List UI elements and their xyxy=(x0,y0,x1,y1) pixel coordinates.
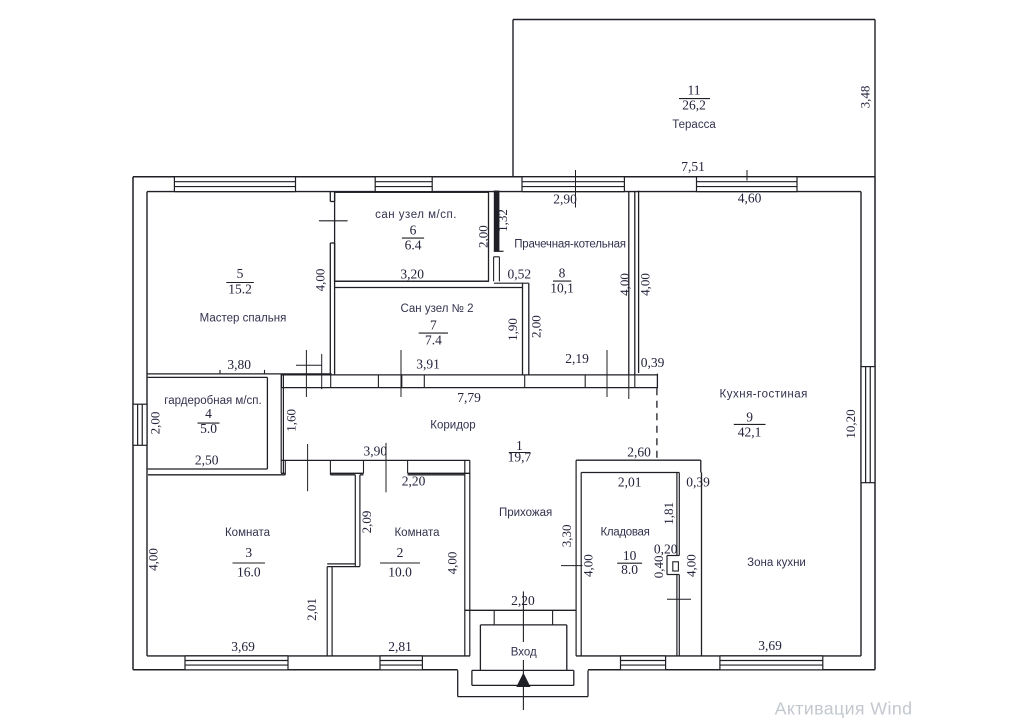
svg-text:10,1: 10,1 xyxy=(550,281,574,296)
wall master/san-uzel upper xyxy=(329,192,331,202)
svg-text:7,51: 7,51 xyxy=(681,159,705,174)
window room2 bottom xyxy=(380,656,422,670)
svg-text:3,91: 3,91 xyxy=(416,357,440,372)
svg-text:2,00: 2,00 xyxy=(528,315,543,338)
window laundry top xyxy=(522,177,624,192)
svg-text:3,90: 3,90 xyxy=(363,444,387,459)
svg-text:6.4: 6.4 xyxy=(405,238,422,253)
svg-text:2,50: 2,50 xyxy=(195,453,219,468)
svg-text:4,00: 4,00 xyxy=(313,269,328,292)
svg-text:2,01: 2,01 xyxy=(304,598,319,621)
wardrobe box xyxy=(266,377,268,469)
wall rooms 2/3 upper xyxy=(354,475,356,566)
corridor bottom wall top line xyxy=(281,459,470,461)
wall rooms 2/3 lower xyxy=(326,567,328,656)
svg-text:7: 7 xyxy=(430,318,437,333)
svg-text:Кухня-гостиная: Кухня-гостиная xyxy=(720,389,808,401)
corridor bottom wall lower segs xyxy=(281,472,285,474)
hall bottom wall xyxy=(465,609,576,611)
svg-text:4,00: 4,00 xyxy=(146,548,161,571)
svg-text:4,00: 4,00 xyxy=(580,554,595,577)
svg-text:0,52: 0,52 xyxy=(507,267,531,282)
svg-text:9: 9 xyxy=(746,410,753,425)
svg-text:4,00: 4,00 xyxy=(617,273,632,296)
entrance door jambs xyxy=(493,610,495,625)
svg-text:Зона кухни: Зона кухни xyxy=(747,557,806,569)
svg-text:0,39: 0,39 xyxy=(641,355,665,370)
window room3 bottom xyxy=(185,656,288,670)
svg-text:0,39: 0,39 xyxy=(686,474,710,489)
house bottom wall outer right xyxy=(588,669,875,671)
svg-text:4,00: 4,00 xyxy=(445,552,460,575)
svg-text:0,20: 0,20 xyxy=(654,542,678,557)
wardrobe top xyxy=(148,376,268,378)
door leaf master bedroom xyxy=(319,220,348,222)
svg-text:11: 11 xyxy=(688,83,701,98)
hall left wall xyxy=(464,460,466,656)
svg-text:2,00: 2,00 xyxy=(476,225,491,248)
svg-text:5: 5 xyxy=(237,266,244,281)
tick corner 3,80 xyxy=(321,354,323,389)
kladovaya door leaf xyxy=(673,562,679,571)
svg-text:сан узел м/сп.: сан узел м/сп. xyxy=(375,209,457,221)
corridor top wall jambs xyxy=(281,375,283,388)
window kladovaya bottom xyxy=(621,656,666,670)
ticks corridor xyxy=(305,350,307,397)
svg-text:Сан узел № 2: Сан узел № 2 xyxy=(400,303,473,315)
svg-text:7,79: 7,79 xyxy=(457,390,481,405)
svg-text:15.2: 15.2 xyxy=(228,282,252,297)
hall corner line xyxy=(656,374,658,389)
room 7 right wall xyxy=(522,283,524,375)
svg-text:Комната: Комната xyxy=(394,527,440,539)
tick below 7,51 right xyxy=(746,170,748,181)
svg-text:Комната: Комната xyxy=(225,527,271,539)
svg-text:3,20: 3,20 xyxy=(400,267,424,282)
svg-text:2,01: 2,01 xyxy=(618,474,642,489)
svg-text:3,69: 3,69 xyxy=(758,638,782,653)
kladovaya left wall xyxy=(575,460,577,656)
ticks corridor bottom xyxy=(307,444,309,491)
svg-text:3,80: 3,80 xyxy=(227,357,251,372)
svg-text:Кладовая: Кладовая xyxy=(600,527,649,539)
porch top xyxy=(480,624,566,626)
window wardrobe left wall xyxy=(133,404,147,445)
svg-text:2,09: 2,09 xyxy=(359,511,374,534)
room 6 box xyxy=(335,192,489,281)
svg-text:19,7: 19,7 xyxy=(508,450,532,465)
svg-text:Коридор: Коридор xyxy=(430,420,475,432)
connector line xyxy=(494,282,529,284)
corridor left wall xyxy=(280,374,282,473)
window san-uzel 6 top xyxy=(375,177,432,192)
terrace outline (room 11) xyxy=(513,19,875,21)
window kitchen top xyxy=(697,177,798,192)
house top wall inner xyxy=(147,191,861,193)
corridor top wall xyxy=(281,374,657,376)
svg-text:10: 10 xyxy=(623,548,637,563)
svg-text:Прачечная-котельная: Прачечная-котельная xyxy=(514,239,626,251)
svg-text:26,2: 26,2 xyxy=(682,98,706,113)
window kitchen right wall xyxy=(861,367,875,483)
tick kladovaya right xyxy=(667,598,691,600)
kitchen zone line xyxy=(701,473,703,656)
room3 top line xyxy=(148,474,285,476)
svg-text:Активация Wind: Активация Wind xyxy=(775,699,913,719)
house top wall outer xyxy=(133,176,875,178)
svg-text:1,32: 1,32 xyxy=(495,209,510,232)
svg-text:Терасса: Терасса xyxy=(672,119,716,131)
svg-text:4,00: 4,00 xyxy=(684,554,699,577)
svg-text:2,60: 2,60 xyxy=(627,445,651,460)
room2 top line xyxy=(360,474,364,476)
house left wall outer xyxy=(132,177,134,670)
svg-text:3: 3 xyxy=(245,545,252,560)
svg-text:2,81: 2,81 xyxy=(388,639,412,654)
door jambs wardrobe/master xyxy=(219,370,221,374)
svg-text:1,60: 1,60 xyxy=(283,409,298,432)
svg-text:16.0: 16.0 xyxy=(237,565,261,580)
kladovaya right wall lower xyxy=(676,575,678,656)
kladovaya top inner xyxy=(581,472,679,474)
svg-text:Прихожая: Прихожая xyxy=(499,507,552,519)
svg-text:7.4: 7.4 xyxy=(425,333,442,348)
svg-text:0,40: 0,40 xyxy=(651,556,666,579)
svg-text:2,00: 2,00 xyxy=(148,412,163,435)
svg-text:8.0: 8.0 xyxy=(621,562,638,577)
window master bedroom top xyxy=(174,177,295,192)
svg-text:2,19: 2,19 xyxy=(565,351,589,366)
window kitchen bottom xyxy=(720,656,823,670)
svg-text:4: 4 xyxy=(205,406,212,421)
svg-text:1,81: 1,81 xyxy=(661,502,676,525)
svg-text:1,90: 1,90 xyxy=(505,318,520,341)
dashed boundary xyxy=(656,388,658,460)
svg-text:4,00: 4,00 xyxy=(638,273,653,296)
svg-text:3,30: 3,30 xyxy=(559,524,574,547)
laundry left wall jog xyxy=(494,250,504,252)
svg-text:2,20: 2,20 xyxy=(402,474,426,489)
svg-text:42,1: 42,1 xyxy=(738,425,762,440)
porch step outer xyxy=(457,670,459,696)
room 6/7 divider xyxy=(335,280,489,282)
svg-text:10,20: 10,20 xyxy=(843,409,858,438)
master bottom wall xyxy=(147,373,332,375)
laundry right wall xyxy=(628,192,630,375)
tick kladovaya left xyxy=(561,565,583,567)
room 7 top xyxy=(335,287,523,289)
corridor bottom jambs xyxy=(284,460,286,474)
svg-text:8: 8 xyxy=(559,266,566,281)
svg-text:3,69: 3,69 xyxy=(231,639,255,654)
kladovaya niche xyxy=(667,555,679,557)
svg-text:Вход: Вход xyxy=(511,647,537,659)
entrance arrow xyxy=(516,673,530,687)
laundry left wall thick xyxy=(494,191,500,252)
svg-text:10.0: 10.0 xyxy=(388,565,412,580)
kitchen boundary line top xyxy=(638,191,640,373)
porch sides xyxy=(479,625,481,671)
house right wall inner xyxy=(860,192,862,656)
svg-text:3,48: 3,48 xyxy=(858,86,873,109)
house left wall inner xyxy=(146,192,148,656)
svg-text:Мастер спальня: Мастер спальня xyxy=(200,313,287,325)
svg-text:5.0: 5.0 xyxy=(200,421,217,436)
house bottom wall inner left xyxy=(147,655,470,657)
tick below 7,51 left xyxy=(575,170,577,208)
house bottom wall outer left xyxy=(133,669,458,671)
svg-text:4,60: 4,60 xyxy=(738,191,762,206)
kladovaya right wall upper xyxy=(676,473,678,556)
svg-text:2,90: 2,90 xyxy=(553,192,577,207)
svg-text:гардеробная м/сп.: гардеробная м/сп. xyxy=(164,395,261,407)
svg-text:2: 2 xyxy=(397,545,404,560)
wall jog xyxy=(327,563,355,565)
entrance axis line xyxy=(522,591,524,642)
house right wall outer xyxy=(874,177,876,670)
porch step inner xyxy=(472,669,574,671)
kladovaya top outer xyxy=(576,459,701,461)
svg-text:6: 6 xyxy=(410,223,417,238)
door leaf 0,52 xyxy=(493,257,495,282)
house bottom wall inner right xyxy=(576,655,861,657)
